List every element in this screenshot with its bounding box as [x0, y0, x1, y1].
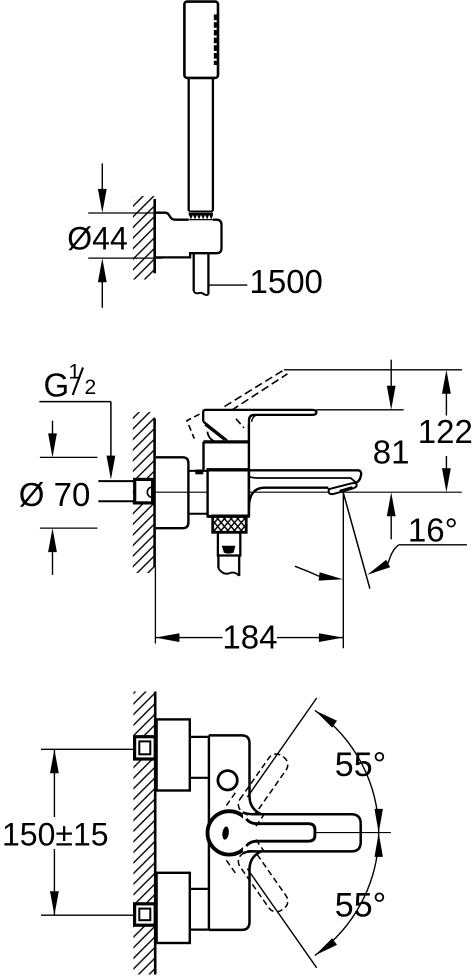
svg-text:2: 2 — [85, 376, 97, 399]
diverter button — [218, 771, 237, 790]
dimension 184 — [155, 567, 343, 643]
spout angle projection lines — [343, 493, 370, 649]
handle end cap — [189, 211, 214, 219]
upper mounting block — [157, 719, 190, 790]
wall (bottom view) — [133, 692, 155, 975]
lower G 1/2 socket — [135, 904, 156, 925]
dimension D44 arrows — [98, 163, 107, 307]
svg-text:122: 122 — [418, 413, 473, 450]
angle 16 annotation — [295, 545, 467, 581]
wall (top view) — [133, 196, 155, 280]
lever pin — [222, 826, 230, 840]
angle arc lower — [315, 833, 383, 956]
svg-text:81: 81 — [373, 434, 410, 471]
dimension 81 — [387, 360, 396, 540]
shower hose — [194, 253, 209, 295]
label 81 — [373, 434, 410, 471]
label 55 deg lower — [335, 886, 386, 924]
svg-text:Ø 70: Ø 70 — [19, 476, 91, 513]
lever handle (solid) — [203, 410, 316, 441]
axis centerline — [315, 832, 391, 834]
leader line 1500 — [208, 284, 247, 286]
dimension D44 extension lines — [88, 213, 162, 258]
neck upper — [190, 737, 209, 778]
angle line upper — [247, 698, 316, 797]
lever boss circle — [208, 811, 251, 854]
label 1500 — [250, 263, 323, 300]
label D70 — [19, 476, 91, 513]
label 184 — [222, 618, 277, 655]
dimension 150+-15 extension lines — [41, 749, 135, 915]
label 16 deg — [408, 512, 458, 549]
dimension 150+-15 — [50, 749, 59, 915]
label G 1/2 — [44, 361, 97, 404]
body front face — [209, 735, 261, 930]
wall (middle view) — [133, 412, 155, 573]
cartridge housing — [203, 424, 249, 516]
label 150+-15 — [2, 817, 109, 853]
lever grip slot — [246, 819, 315, 846]
angle line lower — [247, 869, 316, 968]
lever arm capsule — [243, 812, 361, 853]
spout aerator tip — [329, 483, 357, 494]
angle arc upper — [315, 710, 383, 833]
label 122 — [418, 413, 473, 450]
svg-text:55°: 55° — [335, 886, 386, 924]
svg-text:150±15: 150±15 — [2, 817, 109, 853]
G 1/2 wall connection square — [98, 479, 152, 503]
svg-text:184: 184 — [222, 618, 277, 655]
spray face dashed strip — [214, 15, 219, 66]
neck lower — [190, 889, 209, 930]
knurled nut — [213, 516, 247, 532]
hand shower handle — [189, 78, 213, 211]
dimension 122 — [442, 370, 451, 493]
body step block — [195, 470, 203, 475]
lever handle raised (dashed) — [187, 370, 288, 439]
lever rotated -55 (dashed) — [226, 840, 297, 920]
svg-text:Ø44: Ø44 — [67, 221, 127, 257]
svg-text:1500: 1500 — [250, 263, 323, 300]
spout — [249, 470, 361, 507]
label 55 deg upper — [335, 746, 386, 784]
lower mounting block — [157, 873, 190, 943]
neck between flange and body — [188, 471, 207, 514]
centerline through body — [142, 491, 462, 493]
lever rotated +55 (dashed) — [226, 746, 297, 826]
hand shower head — [184, 2, 218, 78]
upper G 1/2 socket — [135, 737, 156, 759]
extension lines right (122 / 81) — [284, 370, 462, 410]
svg-text:16°: 16° — [408, 512, 458, 549]
shower holder bracket — [156, 213, 222, 258]
label D44 — [67, 221, 127, 257]
main body — [207, 470, 251, 517]
leader G 1/2 — [39, 402, 115, 480]
escutcheon flange — [156, 457, 189, 528]
shower outlet connection — [217, 532, 242, 576]
svg-text:55°: 55° — [335, 746, 386, 784]
svg-text:G: G — [44, 367, 70, 404]
dimension D70 — [40, 421, 98, 575]
